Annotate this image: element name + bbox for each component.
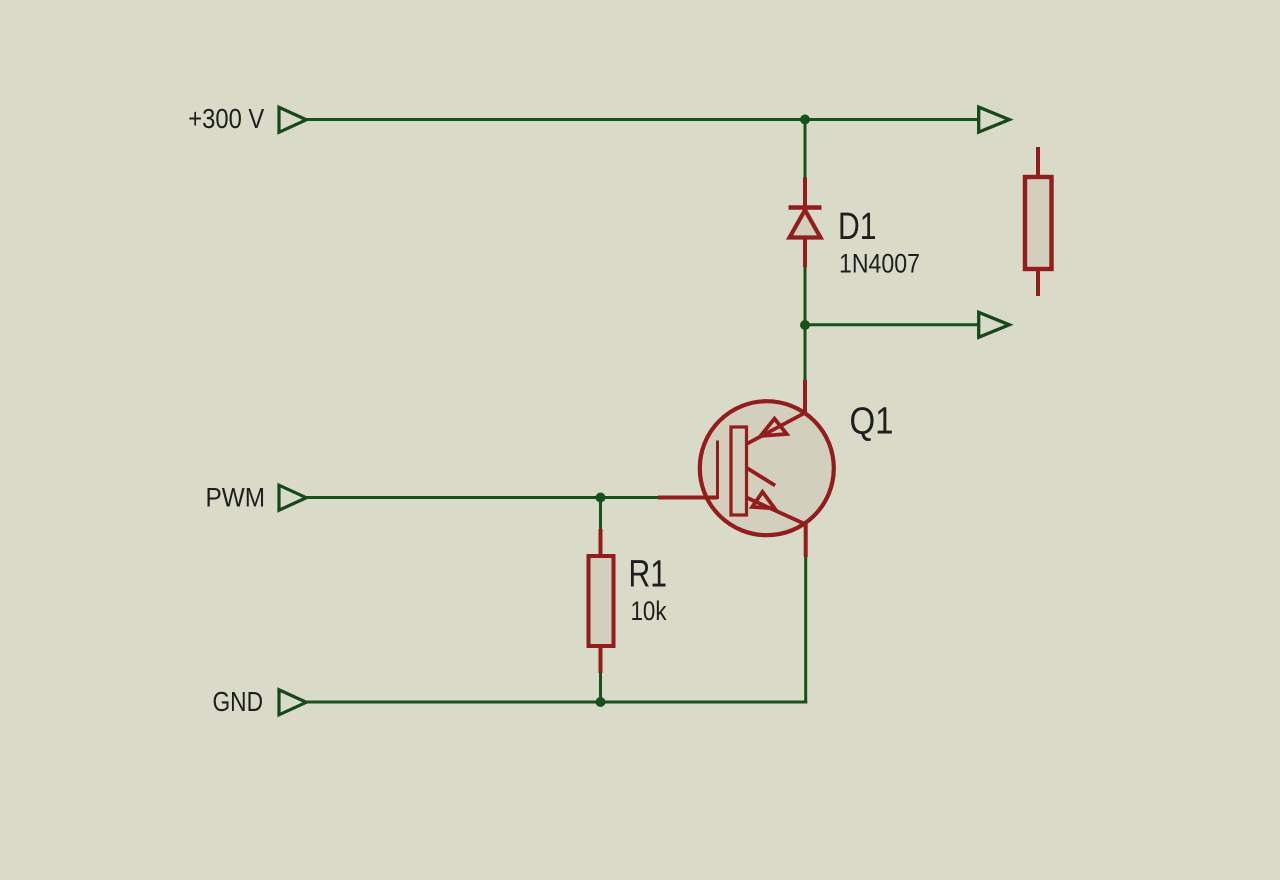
wire GND rail <box>306 701 807 704</box>
wire PWM <box>306 496 658 499</box>
wire collector node to Q1 <box>804 325 807 380</box>
wire +300V rail to D1 <box>804 120 807 178</box>
pin R1 top <box>599 529 603 556</box>
resistor unconnected bottom lead <box>1036 269 1040 296</box>
emitter stroke <box>747 498 807 525</box>
resistor unconnected top lead <box>1036 147 1040 177</box>
svg-text:+300 V: +300 V <box>188 103 264 134</box>
svg-text:1N4007: 1N4007 <box>839 248 920 278</box>
diode D1 <box>789 208 822 238</box>
pin Q1 collector <box>803 380 807 414</box>
terminal GND <box>279 690 306 715</box>
junction node at D1 top <box>800 115 810 125</box>
terminal output mid-right <box>979 312 1010 337</box>
pin D1 cathode <box>803 178 807 208</box>
pin D1 anode <box>803 238 807 268</box>
svg-text:D1: D1 <box>838 206 877 248</box>
insulated bar <box>731 427 747 515</box>
resistor unconnected (right) <box>1025 177 1052 269</box>
gate bar line <box>716 441 719 500</box>
junction GND / R1 <box>596 697 606 707</box>
svg-text:Q1: Q1 <box>850 400 894 442</box>
junction PWM / R1 <box>596 493 606 503</box>
emitter arrow <box>752 492 775 509</box>
wire collector node to output <box>805 323 979 326</box>
svg-text:GND: GND <box>213 686 264 717</box>
junction collector node <box>800 320 810 330</box>
svg-text:PWM: PWM <box>206 483 266 513</box>
transistor Q1 (IGBT) <box>700 401 834 535</box>
svg-text:R1: R1 <box>629 553 668 595</box>
terminal PWM <box>279 485 306 510</box>
wire R1 to GND rail <box>599 673 602 702</box>
wire emitter to GND rail <box>804 557 807 704</box>
wire D1 to collector node <box>804 267 807 325</box>
svg-text:10k: 10k <box>631 596 667 626</box>
terminal +300V <box>279 107 306 132</box>
wire +300V rail <box>306 118 979 121</box>
pin Q1 gate <box>658 496 718 500</box>
wire PWM node to R1 <box>599 498 602 530</box>
pin Q1 emitter <box>804 524 808 557</box>
terminal output top-right <box>979 107 1010 132</box>
pin R1 bottom <box>599 646 603 673</box>
middle stroke <box>747 468 776 486</box>
collector arrow <box>761 419 787 436</box>
collector stroke <box>747 413 806 445</box>
resistor R1 <box>589 556 614 646</box>
